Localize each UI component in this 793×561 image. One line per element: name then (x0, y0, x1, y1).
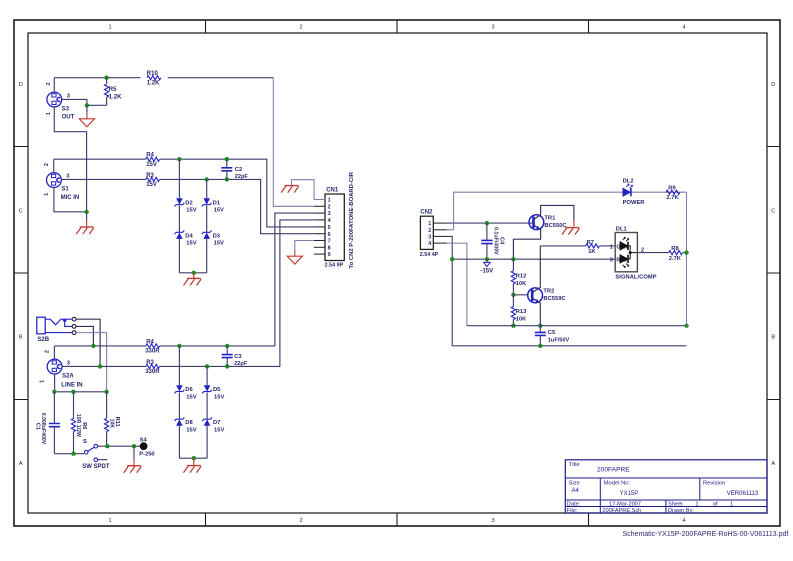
svg-text:C: C (19, 208, 23, 214)
junction R11 top (104, 390, 108, 394)
D3 labels (213, 233, 224, 246)
junction C3 bottom (225, 364, 229, 368)
svg-text:15V: 15V (186, 208, 196, 214)
svg-text:R6: R6 (81, 422, 87, 429)
wire MIC R4 rail (54, 159, 314, 227)
switch S SPDT (84, 444, 107, 461)
wire bottom rail right (452, 345, 686, 347)
junction C3 top (225, 344, 229, 348)
junction S3 pin3 node (85, 103, 89, 107)
wire D1-D3 chain (206, 179, 208, 272)
zener D2 (175, 198, 185, 206)
TR1 emitter wire (513, 225, 540, 259)
R9 labels (666, 186, 679, 201)
LED DL2 (623, 184, 633, 197)
connector CN2 box (420, 216, 433, 249)
junction C4 bottom (485, 257, 489, 261)
node To-CN2 harness label (349, 171, 355, 268)
svg-text:P-250: P-250 (139, 452, 154, 458)
ground TR1 (alt) (562, 228, 580, 235)
svg-text:330R: 330R (145, 349, 160, 355)
wire CN1 pin1 to gnd (292, 180, 326, 200)
D7 labels (213, 420, 224, 433)
C3 labels (234, 354, 248, 367)
C2 labels (235, 167, 249, 180)
svg-text:R4: R4 (146, 339, 154, 345)
wire R7 feed (540, 245, 615, 247)
transistor TR1 (529, 215, 544, 230)
svg-text:15V: 15V (214, 428, 224, 434)
svg-text:2: 2 (299, 25, 302, 31)
svg-text:1K: 1K (588, 249, 596, 255)
svg-text:R8: R8 (671, 246, 679, 252)
svg-text:VER061113: VER061113 (727, 491, 759, 497)
zener D3 (202, 231, 212, 239)
svg-text:D5: D5 (213, 387, 221, 393)
svg-text:C: C (771, 208, 775, 214)
svg-text:1uF/50V: 1uF/50V (548, 338, 570, 344)
R3 labels (146, 173, 157, 188)
S2A labels (40, 350, 83, 388)
wire S2A pin1 to gnd rail (54, 374, 56, 392)
svg-text:2: 2 (299, 518, 302, 524)
svg-text:4: 4 (428, 241, 431, 247)
resistor R5 (105, 78, 109, 106)
svg-text:2: 2 (428, 228, 431, 234)
svg-text:R3: R3 (146, 360, 154, 366)
capacitor C5 (535, 326, 546, 346)
svg-text:D: D (19, 82, 23, 88)
svg-text:R11: R11 (114, 417, 120, 427)
junction R13 bottom (511, 324, 515, 328)
R13 labels (516, 309, 527, 322)
svg-text:4: 4 (328, 218, 331, 224)
svg-text:15V: 15V (214, 208, 224, 214)
wire R10 to CN1 pin2 (273, 78, 314, 207)
wire S2A pin2 stem (53, 346, 55, 359)
wire CN2 pin1 to TR1 base (447, 222, 533, 224)
wire R10 rail (54, 77, 273, 79)
svg-text:15V: 15V (186, 428, 196, 434)
D1 labels (213, 200, 224, 213)
wire S3 pin2 to R10 rail (53, 78, 55, 92)
svg-text:R12: R12 (516, 274, 526, 280)
svg-text:DL1: DL1 (616, 227, 628, 233)
svg-text:POWER: POWER (623, 200, 646, 206)
svg-text:DL2: DL2 (623, 179, 634, 185)
junction rail right (684, 324, 688, 328)
R5 labels (109, 87, 122, 100)
connector S2B jack (37, 317, 73, 334)
svg-text:S4: S4 (140, 438, 148, 444)
svg-text:Size: Size (569, 481, 580, 487)
svg-text:Revision: Revision (703, 481, 725, 487)
S1 labels (44, 163, 79, 201)
border inner frame (28, 33, 767, 513)
svg-text:C3: C3 (234, 354, 242, 360)
svg-text:SIGNAL/COMP: SIGNAL/COMP (615, 274, 656, 280)
connector S3 (47, 92, 62, 107)
zener D5 (202, 385, 212, 393)
junction R8 right (684, 250, 688, 254)
DL1 pin3 name (610, 257, 628, 263)
ground S1 (alt) (76, 227, 94, 234)
svg-text:2: 2 (641, 248, 644, 254)
resistor R6 (71, 392, 75, 454)
ground S3 (triangle) (79, 119, 94, 127)
resistor R3 (line) (146, 364, 160, 368)
junction C2 top (225, 157, 229, 161)
S4 labels (139, 438, 154, 458)
S2B label (37, 337, 49, 343)
svg-text:R7: R7 (587, 240, 594, 246)
wire emitter rail (467, 325, 687, 327)
svg-text:1: 1 (328, 198, 331, 204)
svg-text:330R: 330R (145, 369, 160, 375)
C1 labels (35, 413, 46, 445)
wire S2A pin3 / LINE R3 rail (62, 220, 314, 367)
wire zener gnd stem (line) (193, 458, 195, 465)
DL1 LED green (620, 237, 629, 250)
svg-text:1: 1 (40, 380, 46, 383)
svg-text:CN1: CN1 (326, 187, 339, 193)
svg-text:4: 4 (682, 25, 685, 31)
junction zener gnd (mic) (192, 271, 196, 275)
svg-text:2.54 9P: 2.54 9P (325, 263, 344, 269)
junction pin3/-15V node (450, 257, 454, 261)
zener D1 (202, 198, 212, 206)
wire S1 gnd stem (86, 212, 88, 227)
wire CN2 pin2 to top rail (447, 192, 687, 230)
svg-text:1: 1 (108, 25, 111, 31)
svg-text:YX15P: YX15P (620, 491, 639, 497)
zener D8 (175, 417, 185, 425)
svg-text:9: 9 (328, 252, 331, 258)
svg-text:A4: A4 (572, 488, 580, 494)
svg-text:R9: R9 (668, 186, 676, 192)
wire TR2 base (513, 294, 528, 296)
DL1 pin2 number (641, 248, 644, 254)
svg-text:D1: D1 (213, 200, 221, 206)
ground CN1 pin7 (triangle) (287, 256, 302, 264)
svg-text:1: 1 (428, 221, 431, 227)
D6 labels (185, 387, 196, 400)
resistor R9 (666, 190, 680, 194)
CN1 pin stubs (314, 200, 325, 255)
junction D2 top (177, 157, 181, 161)
junction zener gnd (line) (192, 456, 196, 460)
junction S4 gnd node (132, 444, 136, 448)
svg-text:C1: C1 (35, 423, 41, 430)
svg-text:R10: R10 (147, 71, 159, 77)
junction TR2 emitter node (538, 324, 542, 328)
wire gnd rail (54, 391, 106, 393)
wire S3 pin1 down (54, 107, 86, 212)
svg-text:3: 3 (610, 257, 613, 263)
svg-text:C4: C4 (498, 237, 504, 245)
svg-text:2: 2 (328, 204, 331, 210)
TR2 labels (543, 289, 566, 302)
svg-text:SW SPDT: SW SPDT (82, 464, 110, 470)
DL1 name label (615, 274, 656, 280)
svg-text:S1: S1 (61, 186, 69, 192)
resistor R8 (669, 251, 683, 255)
svg-text:LINE IN: LINE IN (61, 383, 82, 389)
svg-text:3: 3 (491, 518, 494, 524)
CN2 label (420, 210, 433, 216)
svg-text:TR2: TR2 (543, 289, 554, 295)
wire S1 pin2 stem (53, 159, 55, 173)
R7 labels (587, 240, 597, 255)
svg-text:1: 1 (46, 112, 52, 115)
resistor R11 (105, 392, 109, 446)
resistor R13 (511, 295, 515, 326)
filename caption (623, 531, 789, 538)
title block text (567, 462, 759, 514)
C4 labels (493, 227, 505, 255)
svg-text:3: 3 (428, 235, 431, 241)
svg-text:-15V: -15V (480, 269, 493, 275)
svg-text:R4: R4 (146, 153, 154, 159)
svg-text:1: 1 (108, 518, 111, 524)
wire S2B sleeve to gnd rail (76, 333, 107, 392)
R10 labels (147, 71, 160, 86)
capacitor C3 (222, 346, 233, 367)
svg-text:2: 2 (46, 83, 52, 86)
junction S2B ring node (91, 344, 95, 348)
svg-text:10K: 10K (516, 316, 527, 322)
wire -15V feed (452, 258, 615, 260)
S2B contact circles (72, 317, 76, 334)
svg-text:S2B: S2B (37, 337, 49, 343)
svg-text:1: 1 (44, 193, 50, 196)
svg-text:Title: Title (569, 462, 580, 468)
svg-text:BC550C: BC550C (544, 223, 567, 229)
svg-text:Drawn By:: Drawn By: (668, 508, 694, 514)
svg-text:D7: D7 (213, 420, 220, 426)
junction R6 bottom (71, 452, 75, 456)
svg-text:15V: 15V (186, 395, 196, 401)
ground S4 (alt) (124, 466, 142, 473)
svg-text:A: A (771, 461, 775, 467)
svg-text:Model No:: Model No: (604, 481, 631, 487)
wire switch common (98, 445, 140, 447)
ground zeners mic (alt) (184, 278, 202, 285)
svg-text:TR1: TR1 (544, 216, 556, 222)
S3 labels (46, 83, 75, 121)
svg-text:R13: R13 (516, 309, 526, 315)
junction D5 top (205, 364, 209, 368)
svg-text:2: 2 (45, 350, 51, 353)
D2 labels (185, 200, 196, 213)
power -15V (480, 259, 493, 274)
ground CN1 top (alt) (281, 186, 299, 193)
wire D2-D4 chain (178, 159, 180, 273)
svg-text:C5: C5 (548, 330, 556, 336)
svg-text:10K: 10K (108, 419, 114, 429)
svg-text:15V: 15V (214, 395, 224, 401)
resistor R4 (line) (146, 344, 160, 348)
wire zener bottom rail (mic) (179, 272, 206, 274)
svg-text:D: D (771, 82, 775, 88)
wire S1 pin1 to gnd (54, 188, 87, 212)
wire CN1 pin7 to gnd (295, 241, 314, 257)
svg-text:S2A: S2A (62, 374, 74, 380)
junction C1 top (52, 390, 56, 394)
svg-text:200FAPRE.Sch: 200FAPRE.Sch (602, 508, 641, 514)
wire D5-D7 chain (206, 366, 208, 458)
svg-text:Date:: Date: (567, 501, 581, 507)
junction D6 top (177, 344, 181, 348)
svg-text:2.7K: 2.7K (669, 256, 682, 262)
wire zener bottom rail (line) (179, 457, 207, 459)
wire zener gnd stem (mic) (193, 273, 195, 279)
svg-text:1.2K: 1.2K (109, 94, 122, 100)
svg-text:6: 6 (328, 232, 331, 238)
junction TR1 emitter node (511, 257, 515, 261)
zener D4 (175, 231, 185, 239)
junction R6 top (71, 390, 75, 394)
capacitor C2 (221, 159, 232, 179)
junction C5 bottom (538, 344, 542, 348)
svg-text:10K: 10K (516, 281, 527, 287)
R4 labels (146, 153, 157, 168)
svg-text:B: B (771, 335, 775, 341)
zener D6 (175, 385, 185, 393)
svg-text:3: 3 (328, 211, 331, 217)
svg-text:4: 4 (682, 518, 685, 524)
svg-text:5: 5 (328, 225, 331, 231)
DL1 pin1 name (610, 244, 628, 250)
svg-text:7: 7 (328, 239, 331, 245)
svg-text:8: 8 (328, 245, 331, 251)
svg-text:0.1uF/400V: 0.1uF/400V (493, 227, 499, 255)
TR1 collector wire (534, 205, 574, 226)
svg-text:17-Mar-2007: 17-Mar-2007 (609, 501, 641, 507)
wire right riser (686, 192, 688, 326)
svg-text:C2: C2 (235, 167, 242, 173)
D4 labels (185, 233, 196, 246)
svg-text:S3: S3 (62, 107, 70, 113)
TR1 labels (544, 216, 567, 229)
D5 labels (213, 387, 224, 400)
junction R11 bottom (105, 444, 109, 448)
DL2 labels (623, 179, 646, 206)
wire C1/R6 bottom (54, 453, 84, 455)
CN2 pin stubs (433, 223, 447, 243)
svg-text:22pF: 22pF (235, 174, 249, 180)
connector S4 pad (140, 442, 148, 450)
svg-text:2.54 4P: 2.54 4P (420, 252, 439, 258)
junction D1 top (205, 177, 209, 181)
svg-text:D2: D2 (185, 200, 192, 206)
wire CN2 pin3 down (447, 236, 452, 345)
title block grid (565, 460, 767, 513)
svg-text:15V: 15V (186, 241, 196, 247)
junction C4 top (485, 221, 489, 225)
svg-text:15V: 15V (146, 162, 157, 168)
DL1 cathode join (628, 246, 637, 259)
R4 line labels (145, 339, 160, 354)
svg-text:22pF: 22pF (234, 361, 248, 367)
D8 labels (185, 420, 196, 433)
connector S2A (47, 359, 62, 374)
wire S4 gnd stem (133, 446, 135, 466)
DL1 LED red (620, 255, 629, 268)
svg-text:2: 2 (44, 163, 50, 166)
resistor R3 (mic) (146, 177, 160, 181)
svg-text:2.7K: 2.7K (666, 195, 679, 201)
junction R5 top (104, 76, 108, 80)
wire D6-D8 chain (178, 346, 180, 458)
transistor TR2 (528, 288, 543, 303)
svg-text:10R 1/2W: 10R 1/2W (75, 414, 81, 437)
svg-text:200FAPRE: 200FAPRE (597, 466, 630, 473)
wire S3 pin3 (62, 99, 107, 105)
C5 labels (548, 330, 570, 344)
CN2 pin numbers (428, 221, 431, 247)
svg-text:3: 3 (491, 25, 494, 31)
svg-text:15V: 15V (146, 182, 157, 188)
svg-text:OUT: OUT (62, 115, 75, 121)
svg-text:D8: D8 (185, 420, 193, 426)
R12 labels (516, 274, 527, 287)
junction S1 gnd node (84, 210, 88, 214)
svg-text:0.068uF400V: 0.068uF400V (40, 413, 46, 445)
R3 line labels (145, 360, 160, 375)
wire S1 pin3 / MIC R3 rail (61, 179, 313, 233)
DL1 box (615, 233, 637, 272)
svg-text:R3: R3 (146, 173, 154, 179)
CN1 pin numbers (328, 198, 331, 259)
svg-text:Sheet: Sheet (668, 501, 683, 507)
svg-text:R5: R5 (109, 87, 117, 93)
svg-text:Schematic-YX15P-200FAPRE-RoHS-: Schematic-YX15P-200FAPRE-RoHS-00-V061113… (623, 531, 789, 538)
TR2 collector wire (533, 246, 540, 292)
zener D7 (202, 417, 212, 425)
svg-text:1: 1 (730, 501, 733, 507)
svg-text:File:: File: (567, 508, 578, 514)
R6 labels (75, 414, 87, 437)
capacitor C1 (49, 392, 60, 454)
svg-text:D6: D6 (185, 387, 193, 393)
wire S2B tip to R3 node (76, 319, 100, 366)
resistor R7 (586, 244, 600, 248)
junction S2B tip node (98, 364, 102, 368)
svg-text:D4: D4 (185, 233, 193, 239)
svg-text:BC559C: BC559C (543, 296, 566, 302)
svg-text:15V: 15V (214, 241, 224, 247)
ground zeners line (alt) (184, 466, 202, 473)
svg-text:1: 1 (610, 244, 613, 250)
wire LINE R4 rail (54, 213, 313, 346)
TR2 emitter wire (533, 299, 540, 326)
svg-text:MIC IN: MIC IN (61, 195, 80, 201)
CN2 value label (420, 252, 439, 258)
resistor R4 (mic) (146, 157, 160, 161)
wire S3 gnd stem (86, 105, 88, 119)
connector CN1 box (325, 194, 344, 261)
CN1 label (326, 187, 339, 193)
svg-text:A: A (19, 461, 23, 467)
R11 labels (108, 417, 119, 429)
svg-text:B: B (19, 335, 23, 341)
svg-text:To CN2 P-200FATONE-BOARD-CIR: To CN2 P-200FATONE-BOARD-CIR (349, 171, 355, 268)
svg-text:S: S (83, 439, 87, 445)
connector S1 (47, 173, 62, 188)
DL1 label (616, 227, 628, 233)
CN1 value label (325, 263, 344, 269)
